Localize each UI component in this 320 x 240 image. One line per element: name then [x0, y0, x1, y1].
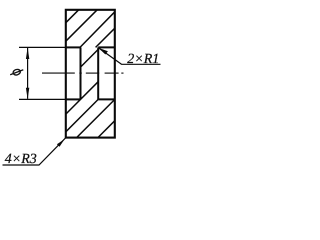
part outline: outer rectangle — [66, 10, 115, 138]
leader 4xR3 — [3, 138, 66, 165]
rim inner edge bottom-right — [98, 98, 115, 100]
centerline — [42, 72, 124, 74]
rim inner edge bottom-left — [66, 98, 81, 100]
extension line bottom — [19, 98, 66, 100]
web left face — [80, 47, 82, 99]
svg-text:4×R3: 4×R3 — [5, 152, 37, 167]
hatching web — [66, 49, 98, 114]
hatching top flange — [66, 10, 115, 48]
hatching bottom flange — [66, 99, 115, 137]
leader arrowhead 2xR1 — [98, 48, 108, 55]
svg-text:2×R1: 2×R1 — [127, 52, 159, 67]
rim inner edge top-right — [98, 46, 115, 48]
phi symbol — [10, 68, 23, 75]
rim inner edge top-left — [66, 46, 81, 48]
dimension line — [27, 48, 29, 99]
leader 2xR1 — [99, 48, 161, 64]
extension line top — [19, 46, 66, 48]
web right face — [97, 47, 99, 99]
dim arrow up — [26, 48, 29, 60]
dim arrow down — [26, 88, 29, 100]
leader arrowhead 4xR3 — [57, 139, 65, 147]
